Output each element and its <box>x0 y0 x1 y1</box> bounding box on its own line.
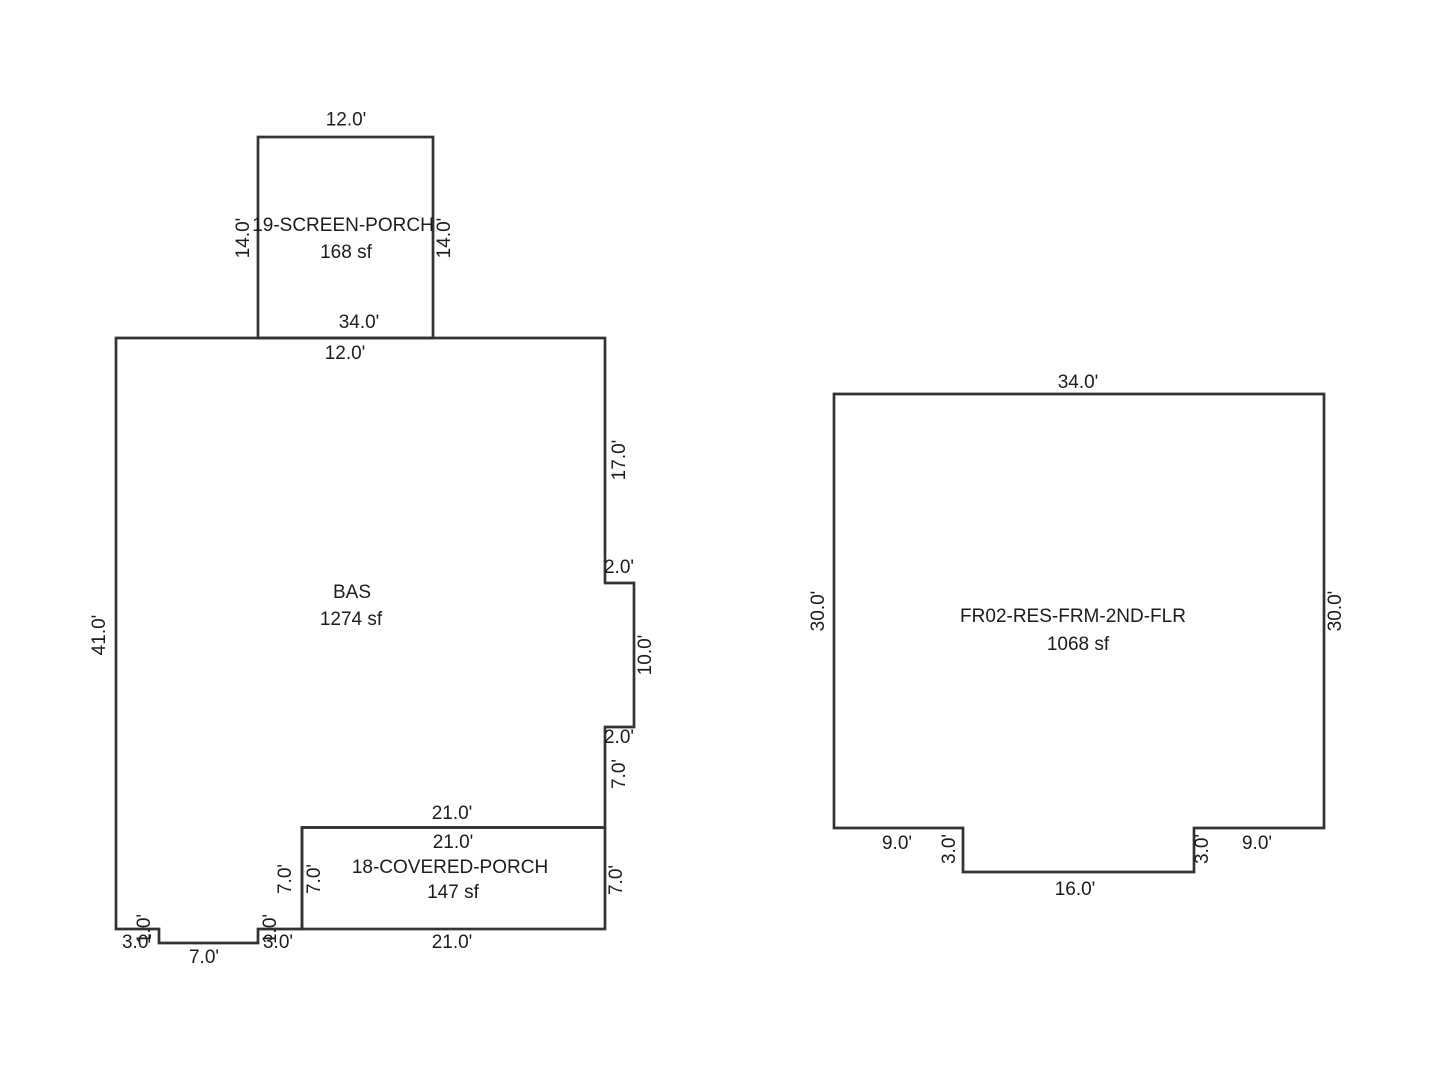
svg-text:34.0': 34.0' <box>1058 372 1099 393</box>
svg-text:7.0': 7.0' <box>275 864 296 894</box>
second floor outline <box>834 394 1324 872</box>
svg-text:147 sf: 147 sf <box>427 882 479 903</box>
svg-text:19-SCREEN-PORCH: 19-SCREEN-PORCH <box>252 215 434 236</box>
svg-text:7.0': 7.0' <box>606 865 627 895</box>
svg-text:18-COVERED-PORCH: 18-COVERED-PORCH <box>352 857 548 878</box>
svg-text:168 sf: 168 sf <box>320 242 372 263</box>
svg-text:7.0': 7.0' <box>189 947 219 968</box>
svg-text:1274 sf: 1274 sf <box>320 609 383 630</box>
svg-text:BAS: BAS <box>333 582 371 603</box>
covered porch outline <box>302 828 605 930</box>
svg-text:14.0': 14.0' <box>434 218 455 259</box>
svg-text:9.0': 9.0' <box>882 833 912 854</box>
svg-text:41.0': 41.0' <box>89 615 110 656</box>
svg-text:FR02-RES-FRM-2ND-FLR: FR02-RES-FRM-2ND-FLR <box>960 606 1186 627</box>
svg-text:12.0': 12.0' <box>326 110 367 131</box>
svg-text:9.0': 9.0' <box>1242 833 1272 854</box>
svg-text:30.0': 30.0' <box>1325 591 1346 632</box>
svg-text:21.0': 21.0' <box>432 932 473 953</box>
svg-text:2.0': 2.0' <box>604 727 634 748</box>
svg-text:7.0': 7.0' <box>304 864 325 894</box>
svg-text:34.0': 34.0' <box>339 312 380 333</box>
svg-text:7.0': 7.0' <box>609 759 630 789</box>
svg-text:3.0': 3.0' <box>263 932 293 953</box>
svg-text:16.0': 16.0' <box>1055 879 1096 900</box>
svg-text:3.0': 3.0' <box>1192 834 1213 864</box>
BAS outline <box>116 338 634 943</box>
svg-text:30.0': 30.0' <box>808 591 829 632</box>
svg-text:12.0': 12.0' <box>325 343 366 364</box>
svg-text:1068 sf: 1068 sf <box>1047 634 1110 655</box>
svg-text:1.0': 1.0' <box>134 914 155 944</box>
svg-text:14.0': 14.0' <box>233 218 254 259</box>
svg-text:21.0': 21.0' <box>433 832 474 853</box>
svg-text:3.0': 3.0' <box>939 834 960 864</box>
svg-text:21.0': 21.0' <box>432 803 473 824</box>
svg-text:10.0': 10.0' <box>635 635 656 676</box>
screen porch outline <box>258 137 433 338</box>
svg-text:2.0': 2.0' <box>604 557 634 578</box>
svg-text:17.0': 17.0' <box>609 440 630 481</box>
